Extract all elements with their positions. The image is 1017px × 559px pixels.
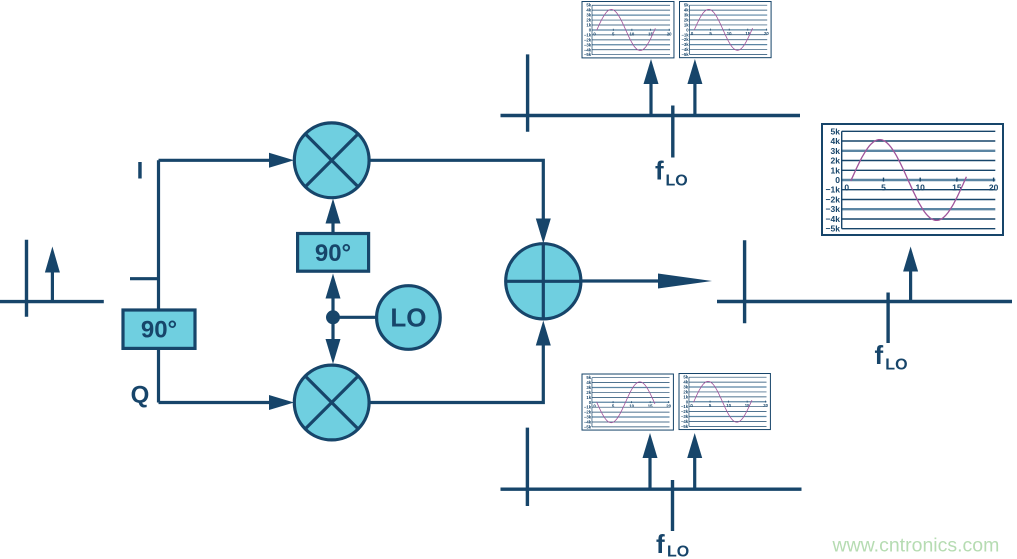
- svg-text:LO: LO: [667, 544, 689, 559]
- wire phase shifter to mixer M1 (arrow up): [326, 199, 341, 234]
- svg-text:f: f: [655, 155, 664, 185]
- input vertical wire: [157, 160, 160, 402]
- f_LO label (output): [875, 340, 908, 373]
- svg-text:Q: Q: [131, 382, 150, 409]
- svg-text:www.cntronics.com: www.cntronics.com: [832, 535, 1000, 557]
- f_LO label (lower): [656, 529, 689, 559]
- arrow to lower-right chart: [687, 433, 702, 489]
- svg-text:f: f: [875, 340, 884, 370]
- wire M1 output to summer (arrow down): [369, 160, 551, 243]
- chart lower-right (Q mixer output): [679, 374, 770, 430]
- phase shifter 90 deg (LO path): [298, 234, 369, 272]
- svg-text:90°: 90°: [315, 240, 351, 267]
- mixer M2 (Q path): [294, 365, 369, 440]
- LO oscillator: [377, 286, 441, 350]
- svg-text:LO: LO: [390, 303, 426, 333]
- chart lower-left (Q mixer output, inverted): [582, 374, 673, 430]
- input spectrum axis: [0, 240, 104, 317]
- upper spectrum axis: [501, 54, 801, 157]
- wire Q to mixer M2: [159, 395, 295, 410]
- wire node to phase shifter (arrow up): [326, 274, 341, 318]
- input node tick: [130, 277, 159, 280]
- svg-text:90°: 90°: [141, 317, 177, 344]
- phase shifter 90 deg (input path): [123, 310, 195, 348]
- arrow to lower-left chart: [643, 433, 658, 489]
- output spectrum axis: [717, 240, 1012, 343]
- summer (adder): [506, 244, 581, 319]
- wire node to mixer M2 (arrow down): [326, 317, 341, 364]
- wire M2 output to summer (arrow up): [369, 321, 551, 403]
- chart output (sum waveform): [822, 124, 1003, 235]
- arrow to upper-right chart: [687, 59, 702, 116]
- f_LO label (upper): [655, 155, 688, 189]
- arrow to output chart: [903, 247, 918, 302]
- node junction dot: [326, 310, 340, 324]
- chart upper-left (I mixer output): [582, 2, 674, 58]
- svg-text:I: I: [137, 157, 144, 184]
- svg-text:LO: LO: [885, 356, 907, 373]
- wire I to mixer M1: [159, 153, 295, 168]
- svg-text:f: f: [656, 529, 665, 559]
- output wire with long arrow: [581, 274, 712, 289]
- wire node to LO: [333, 316, 379, 319]
- mixer M1 (I path): [294, 123, 369, 198]
- lower spectrum axis: [501, 428, 802, 531]
- arrow to upper-left chart: [644, 59, 659, 116]
- svg-text:LO: LO: [666, 172, 688, 189]
- chart upper-right (I mixer output delayed): [680, 2, 772, 58]
